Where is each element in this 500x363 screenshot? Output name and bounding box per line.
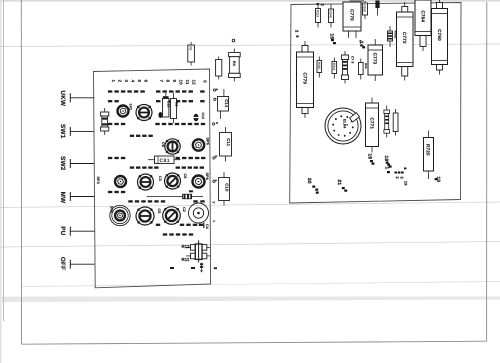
svg-text:MW: MW — [59, 192, 66, 204]
svg-text:C14: C14 — [224, 99, 229, 108]
svg-text:C13: C13 — [167, 101, 171, 107]
svg-text:SP5: SP5 — [206, 138, 210, 145]
svg-text:R720: R720 — [425, 144, 430, 156]
svg-text:5: 5 — [137, 80, 142, 83]
svg-text:UKW: UKW — [59, 90, 66, 106]
svg-text:21: 21 — [336, 180, 342, 186]
svg-text:C8: C8 — [183, 174, 187, 179]
svg-text:C770: C770 — [349, 9, 354, 21]
svg-text:SP6: SP6 — [205, 173, 209, 180]
svg-text:R12: R12 — [182, 244, 191, 249]
svg-text:C760: C760 — [437, 29, 442, 41]
svg-text:R34: R34 — [364, 63, 368, 69]
svg-text:R11: R11 — [182, 257, 190, 262]
svg-text:2: 2 — [117, 80, 122, 83]
svg-text:C764: C764 — [420, 10, 425, 22]
svg-text:SP4: SP4 — [110, 206, 114, 213]
svg-text:3: 3 — [124, 80, 129, 83]
svg-text:R346: R346 — [329, 10, 333, 18]
svg-text:0: 0 — [202, 80, 207, 83]
svg-text:7: 7 — [159, 80, 164, 83]
svg-text:R324: R324 — [316, 10, 320, 18]
svg-text:19: 19 — [404, 181, 408, 186]
svg-text:16: 16 — [367, 154, 373, 160]
svg-text:C11: C11 — [226, 138, 231, 147]
svg-text:C779: C779 — [302, 72, 307, 84]
svg-text:SW1: SW1 — [59, 124, 66, 139]
svg-text:R350: R350 — [317, 62, 321, 70]
svg-text:11: 11 — [185, 80, 190, 85]
svg-text:3: 3 — [400, 177, 404, 179]
svg-text:14: 14 — [358, 41, 364, 47]
svg-text:6: 6 — [143, 80, 148, 83]
svg-text:12: 12 — [191, 80, 196, 86]
svg-text:R342: R342 — [394, 31, 398, 39]
svg-text:C4: C4 — [205, 224, 209, 229]
svg-text:20: 20 — [306, 178, 312, 184]
svg-text:R6: R6 — [189, 46, 193, 50]
svg-text:SP2: SP2 — [129, 104, 133, 111]
svg-text:2: 2 — [395, 177, 399, 179]
svg-text:C773: C773 — [373, 53, 378, 65]
svg-text:PU: PU — [59, 226, 66, 235]
svg-text:C3: C3 — [158, 176, 162, 181]
svg-text:R8: R8 — [174, 102, 178, 107]
svg-text:C7 8: C7 8 — [351, 56, 355, 64]
svg-text:C9: C9 — [161, 142, 165, 147]
svg-text:y: y — [212, 202, 216, 204]
svg-text:C2: C2 — [182, 207, 186, 212]
svg-text:9: 9 — [172, 80, 177, 83]
svg-text:1: 1 — [384, 167, 390, 170]
svg-text:C10: C10 — [225, 183, 230, 192]
svg-text:R341: R341 — [332, 63, 336, 71]
svg-text:OFF: OFF — [59, 257, 66, 270]
svg-text:C12: C12 — [201, 113, 205, 119]
svg-text:8: 8 — [165, 80, 170, 83]
svg-text:1: 1 — [111, 80, 116, 83]
svg-text:SW2: SW2 — [59, 156, 66, 171]
svg-text:C771: C771 — [369, 117, 374, 129]
svg-text:C81: C81 — [160, 158, 170, 164]
svg-text:R4: R4 — [232, 61, 236, 66]
svg-text:C5: C5 — [157, 209, 161, 214]
svg-text:18: 18 — [383, 156, 389, 162]
svg-text:EL84: EL84 — [343, 119, 347, 128]
svg-text:10: 10 — [178, 80, 183, 86]
svg-text:SP3: SP3 — [96, 177, 100, 184]
svg-text:L: L — [212, 221, 216, 223]
svg-text:4: 4 — [130, 80, 135, 83]
svg-text:C772: C772 — [402, 32, 407, 44]
svg-text:R358: R358 — [363, 4, 367, 12]
svg-text:15: 15 — [329, 34, 335, 40]
svg-text:o: o — [215, 122, 219, 124]
